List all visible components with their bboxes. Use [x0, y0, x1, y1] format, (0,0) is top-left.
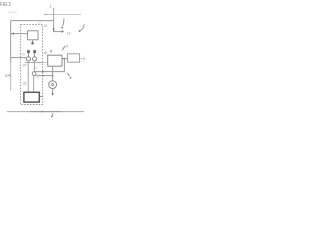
valve V2 stem [34, 53, 36, 57]
dashed enclosure box [21, 25, 43, 105]
tick above heater [50, 51, 52, 53]
svg-text:8: 8 [83, 57, 85, 61]
stub below control box [32, 40, 34, 42]
valve V2 body [33, 57, 37, 61]
wire: pipe A to mixer junction [35, 71, 64, 73]
svg-text:22: 22 [21, 53, 25, 57]
tank outlet stub [40, 96, 43, 98]
wire: top supply line [11, 20, 54, 22]
tick on supply line [44, 13, 47, 15]
arrowhead into left line [11, 32, 14, 34]
svg-text:16: 16 [67, 31, 71, 35]
wire: bottom drain line [7, 111, 84, 113]
leader mark right-middle [67, 73, 69, 76]
valve V1 stem [27, 53, 29, 57]
faint dash row upper-left [8, 11, 17, 13]
valve V2 actuator [33, 50, 36, 53]
valve V1 actuator [27, 50, 30, 53]
junction dot on drain line [41, 111, 43, 113]
label 4 below drain [52, 113, 53, 116]
heater box 18 [48, 55, 62, 66]
svg-text:34: 34 [34, 66, 38, 70]
control unit box 26 [28, 31, 38, 40]
svg-text:24: 24 [65, 44, 69, 48]
pump P [49, 81, 57, 89]
wire: left branch to valve [11, 57, 27, 59]
wire: pump feed [52, 66, 54, 81]
valve V1 body [26, 57, 30, 61]
tank 38 [24, 92, 39, 102]
wire: inlet into control box with arrow [11, 33, 28, 35]
junction dot on pump line [52, 75, 54, 77]
curved leader 2 (top right) [80, 24, 84, 30]
wire: manifold line under valves [25, 62, 43, 64]
curved leader 14 [63, 18, 64, 26]
wire: valve V2 drop [33, 61, 35, 72]
wire: upper right line [46, 14, 81, 16]
svg-text:20: 20 [23, 64, 27, 68]
wire: drop from divider to tank [33, 76, 35, 93]
pump inner [52, 84, 54, 86]
svg-text:18: 18 [43, 51, 47, 55]
flow divider circle 36 [32, 72, 36, 76]
junction dot [42, 71, 44, 73]
wire: outlet line to right with arrow [54, 31, 62, 33]
wire: vertical leg from supply [53, 8, 55, 32]
svg-text:32: 32 [23, 82, 27, 86]
svg-text:30: 30 [5, 74, 9, 78]
wire: valve V1 drop [27, 61, 29, 92]
wire: junction drop [63, 59, 65, 72]
wire: pump outlet with arrow [52, 89, 54, 94]
label 8 with dash [81, 57, 83, 59]
small connector block 28 [32, 42, 34, 45]
junction dot between boxes [63, 58, 65, 60]
junction dot [42, 75, 44, 77]
svg-text:FIG 3: FIG 3 [0, 2, 10, 8]
svg-text:36: 36 [36, 76, 40, 80]
arrowhead outlet [62, 30, 65, 32]
wire: pipe B to pump line [35, 75, 52, 77]
wire: left vertical feed line [10, 21, 12, 62]
label 24 with leader [62, 46, 65, 50]
svg-text:1: 1 [49, 4, 52, 9]
outlet box 8 [68, 54, 80, 62]
svg-text:26: 26 [44, 24, 48, 28]
wire: heater to outlet box [62, 58, 68, 60]
